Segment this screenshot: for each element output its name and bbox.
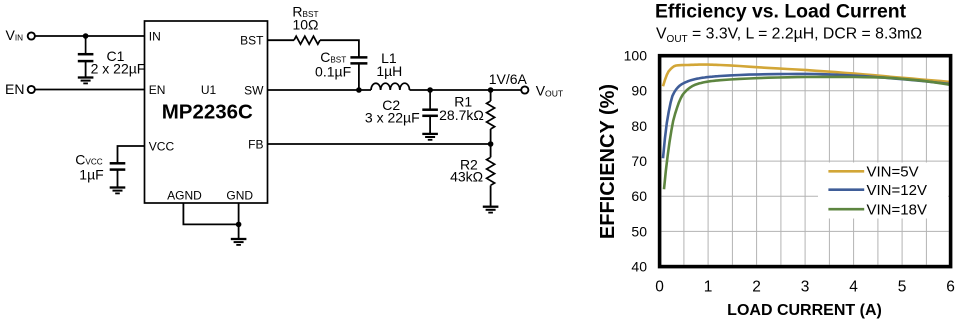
svg-text:GND: GND [226, 189, 253, 203]
capacitor CBST [350, 57, 367, 90]
svg-text:SW: SW [244, 83, 264, 97]
svg-text:3: 3 [801, 279, 810, 296]
curve VIN=5V [663, 65, 951, 87]
chart gridlines [661, 58, 949, 265]
svg-text:Efficiency vs. Load Current: Efficiency vs. Load Current [655, 0, 907, 22]
svg-text:5: 5 [898, 279, 907, 296]
svg-text:EN: EN [149, 83, 166, 97]
svg-text:1: 1 [704, 279, 713, 296]
wire GND pin [238, 203, 240, 239]
inductor L1 [371, 83, 409, 90]
svg-text:VIN=18V: VIN=18V [867, 201, 927, 218]
legend swatch VIN=18V [828, 208, 864, 211]
wire VIN to IN pin [36, 35, 145, 37]
svg-text:1µF: 1µF [79, 166, 103, 182]
resistor R2 [487, 144, 495, 207]
svg-text:3 x 22µF: 3 x 22µF [365, 109, 420, 125]
legend swatch VIN=5V [828, 170, 864, 173]
svg-text:50: 50 [631, 223, 647, 239]
svg-text:VCC: VCC [149, 139, 175, 153]
resistor R1 [487, 90, 495, 144]
svg-text:100: 100 [624, 48, 648, 64]
node FB/R1/R2 junction [488, 141, 494, 147]
terminal EN [28, 86, 35, 93]
x axis tick labels [655, 279, 955, 296]
svg-text:AGND: AGND [167, 189, 202, 203]
svg-text:FB: FB [248, 137, 263, 151]
svg-text:EN: EN [5, 81, 24, 97]
capacitor CVCC wiring [110, 146, 145, 187]
terminal VIN [28, 32, 35, 39]
ground under GND pin [231, 239, 247, 245]
svg-text:U1: U1 [201, 83, 217, 97]
capacitor C2 [422, 90, 438, 134]
svg-text:MP2236C: MP2236C [162, 100, 253, 123]
svg-text:IN: IN [149, 30, 161, 44]
svg-text:VOUT: VOUT [536, 83, 564, 99]
svg-text:28.7kΩ: 28.7kΩ [439, 107, 484, 123]
svg-text:BST: BST [240, 34, 264, 48]
capacitor C1 [78, 36, 94, 77]
wire EN to EN pin [36, 89, 145, 91]
wire RBST to CBST [320, 40, 359, 57]
terminal VOUT [521, 86, 528, 93]
svg-text:0.1µF: 0.1µF [315, 64, 351, 80]
svg-text:LOAD CURRENT (A): LOAD CURRENT (A) [727, 302, 882, 319]
chart frame [660, 56, 951, 267]
svg-text:CVCC: CVCC [75, 151, 102, 167]
svg-text:43kΩ: 43kΩ [450, 169, 483, 185]
ground under C1 [78, 78, 94, 84]
wire L1 to VOUT [410, 89, 521, 91]
ground under CVCC [110, 188, 126, 194]
svg-text:80: 80 [631, 118, 647, 134]
wire SW from IC to L1 [268, 89, 372, 91]
curve VIN=18V [664, 77, 951, 189]
svg-text:4: 4 [849, 279, 858, 296]
curve VIN=12V [663, 74, 951, 158]
node VIN/C1 junction [83, 33, 89, 39]
y axis tick labels [624, 48, 648, 275]
legend labels [867, 164, 927, 219]
wire AGND pin [183, 203, 238, 224]
svg-text:1µH: 1µH [376, 63, 402, 79]
SCHEMATIC TEXT [5, 4, 564, 185]
legend background [818, 163, 948, 219]
node AGND/GND junction [236, 222, 242, 228]
wire BST to resistor [268, 39, 295, 41]
legend swatch VIN=12V [828, 188, 864, 191]
IC U1 MP2236C body [145, 21, 268, 203]
resistor RBST [294, 36, 320, 44]
svg-text:VIN=5V: VIN=5V [867, 164, 919, 181]
svg-text:70: 70 [631, 153, 647, 169]
svg-text:6: 6 [946, 279, 955, 296]
svg-text:EFFICIENCY (%): EFFICIENCY (%) [597, 84, 619, 239]
ground under C2 [422, 134, 438, 140]
svg-text:VIN=12V: VIN=12V [867, 182, 927, 199]
wire FB [268, 143, 491, 145]
svg-text:40: 40 [631, 258, 647, 274]
node L1/C2 junction [427, 87, 433, 93]
node SW/CBST junction [356, 87, 362, 93]
svg-text:2 x 22µF: 2 x 22µF [91, 61, 146, 77]
svg-text:2: 2 [752, 279, 761, 296]
svg-text:VOUT = 3.3V, L = 2.2µH, DCR =: VOUT = 3.3V, L = 2.2µH, DCR = 8.3mΩ [656, 26, 922, 45]
ground under R2 [483, 207, 499, 213]
svg-text:VIN: VIN [6, 27, 24, 43]
svg-text:1V/6A: 1V/6A [489, 71, 528, 87]
svg-text:90: 90 [631, 83, 647, 99]
svg-text:60: 60 [631, 188, 647, 204]
svg-text:0: 0 [655, 279, 664, 296]
node output/R1 junction [488, 87, 494, 93]
svg-text:10Ω: 10Ω [292, 17, 318, 33]
